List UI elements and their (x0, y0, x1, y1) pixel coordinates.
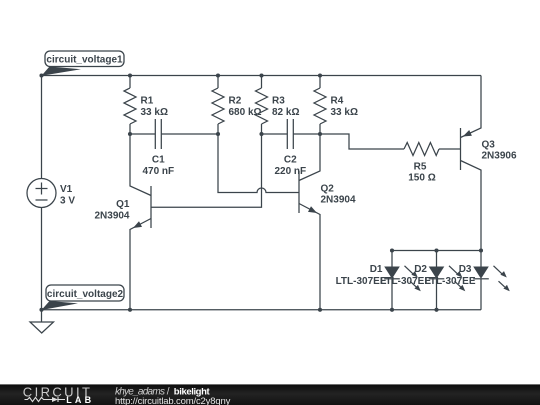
junction R1 bottom / C1 left (128, 132, 132, 136)
logo diode (52, 397, 58, 402)
junction Q1 emitter bottom rail (128, 308, 132, 312)
junction Q2 emitter bottom rail (318, 308, 322, 312)
junction R4 bottom / C2 right (318, 132, 322, 136)
resistor R1 (124, 76, 168, 135)
resistor R4 (314, 76, 358, 135)
svg-text:Q2: Q2 (321, 184, 335, 195)
junction R2 top (216, 73, 220, 77)
junction D1 anode (390, 248, 394, 252)
svg-text:R1: R1 (141, 96, 154, 107)
LED D1 (336, 251, 421, 310)
svg-text:82 kΩ: 82 kΩ (272, 107, 299, 118)
junction R4 top (318, 73, 322, 77)
wire top rail (42, 75, 482, 77)
svg-text:D1: D1 (370, 264, 383, 275)
node circuit_voltage1 (42, 51, 125, 76)
wire left rail lower (41, 208, 43, 310)
transistor Q1 (94, 134, 151, 310)
svg-text:R4: R4 (331, 96, 344, 107)
ground (30, 310, 54, 333)
svg-text:V1: V1 (60, 184, 73, 195)
node circuit_voltage2 (42, 285, 125, 310)
svg-text:http://circuitlab.com/c2y8qny: http://circuitlab.com/c2y8qny (115, 396, 231, 405)
junction D2 anode (434, 248, 438, 252)
svg-text:circuit_voltage2: circuit_voltage2 (47, 289, 124, 300)
svg-text:2N3906: 2N3906 (482, 151, 517, 162)
svg-text:2N3904: 2N3904 (321, 195, 356, 206)
footer bar (0, 384, 540, 405)
svg-text:2N3904: 2N3904 (94, 210, 129, 221)
svg-text:LTL-307EE: LTL-307EE (425, 276, 476, 287)
resistor R5 (404, 143, 461, 184)
junction V1 top rail (39, 73, 43, 77)
wire C2 row to R5 (320, 134, 404, 149)
svg-text:LAB: LAB (66, 395, 94, 405)
wire R3 bottom to Q1 base (151, 134, 262, 207)
svg-text:33 kΩ: 33 kΩ (141, 107, 168, 118)
junction D2 cathode bottom rail (434, 308, 438, 312)
svg-text:C1: C1 (152, 155, 165, 166)
svg-text:Q3: Q3 (482, 140, 496, 151)
wire R2 bottom to Q2 base with hop (218, 134, 299, 193)
transistor Q3 (461, 76, 517, 251)
junction D1 cathode bottom rail (390, 308, 394, 312)
svg-text:R5: R5 (414, 162, 427, 173)
svg-text:R2: R2 (229, 96, 242, 107)
junction R3 bottom / C2 left (259, 132, 263, 136)
svg-text:R3: R3 (272, 96, 285, 107)
svg-text:D3: D3 (459, 264, 472, 275)
capacitor C2 (262, 119, 321, 177)
LED D3 (425, 251, 510, 310)
voltage source V1 (27, 179, 75, 208)
wire bottom rail (42, 309, 482, 311)
LED D2 (380, 251, 465, 310)
svg-text:33 kΩ: 33 kΩ (331, 107, 358, 118)
wire LED top rail (392, 250, 481, 252)
svg-text:470 nF: 470 nF (142, 166, 174, 177)
junction R1 top (128, 73, 132, 77)
capacitor C1 (130, 119, 218, 177)
junction R3 top (259, 73, 263, 77)
svg-text:Q1: Q1 (116, 199, 130, 210)
wire left rail upper (41, 76, 43, 179)
junction V1 bottom rail (39, 308, 43, 312)
svg-text:3 V: 3 V (60, 195, 75, 206)
svg-text:220 nF: 220 nF (274, 166, 306, 177)
logo waveform (25, 397, 53, 401)
junction R2 bottom / C1 right (216, 132, 220, 136)
svg-text:150 Ω: 150 Ω (408, 172, 435, 183)
junction D3 anode / Q3 collector (479, 248, 483, 252)
svg-text:circuit_voltage1: circuit_voltage1 (46, 55, 123, 66)
svg-text:680 kΩ: 680 kΩ (229, 107, 262, 118)
svg-text:D2: D2 (414, 264, 427, 275)
resistor R3 (256, 76, 300, 135)
transistor Q2 (299, 134, 356, 310)
svg-text:C2: C2 (284, 155, 297, 166)
resistor R2 (212, 76, 262, 135)
